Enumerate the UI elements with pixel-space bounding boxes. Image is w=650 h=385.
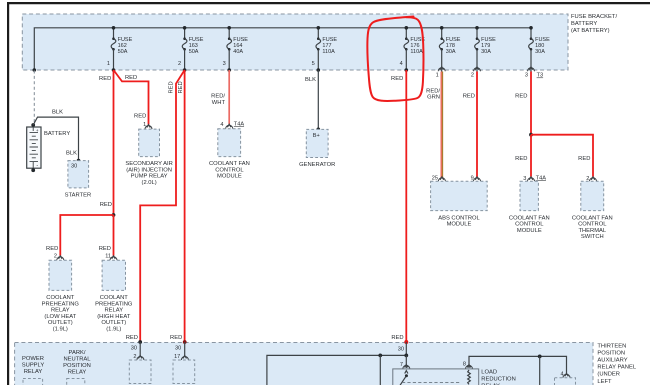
svg-text:RED: RED [170, 335, 182, 341]
coolant preheating relay low [42, 260, 80, 332]
svg-text:FUSE BRACKET/: FUSE BRACKET/ [571, 14, 617, 20]
svg-text:30: 30 [175, 346, 181, 352]
svg-text:RED: RED [100, 202, 112, 208]
svg-text:COOLANT: COOLANT [46, 295, 74, 301]
svg-text:3: 3 [525, 73, 528, 79]
svg-text:RED: RED [391, 76, 403, 82]
svg-text:SUPPLY: SUPPLY [22, 363, 45, 369]
panel caption [597, 343, 636, 385]
wire RED fuse180 T3 to junction [515, 72, 533, 137]
svg-text:2: 2 [178, 61, 181, 67]
svg-text:(AT BATTERY): (AT BATTERY) [571, 28, 610, 34]
wire battery feed (dashed) [33, 71, 34, 126]
svg-text:AUXILIARY: AUXILIARY [597, 358, 627, 364]
coolant preheating relay high [95, 260, 133, 332]
svg-text:POSITION: POSITION [63, 363, 91, 369]
svg-text:SWITCH: SWITCH [581, 234, 604, 240]
svg-text:BATTERY: BATTERY [571, 21, 597, 27]
svg-text:RELAY PANEL: RELAY PANEL [597, 365, 636, 371]
svg-text:(1.9L): (1.9L) [53, 327, 68, 333]
fuse F176 110A [400, 26, 426, 72]
fuse F179 30A [471, 26, 496, 79]
svg-text:3: 3 [223, 61, 226, 67]
power supply relay box [23, 379, 43, 385]
relay box pins 30/17 [173, 360, 195, 384]
svg-text:RED/: RED/ [426, 88, 440, 94]
svg-text:PREHEATING: PREHEATING [42, 301, 80, 307]
svg-text:RED: RED [578, 156, 590, 162]
fuse bracket caption [571, 14, 617, 34]
svg-text:50A: 50A [118, 49, 128, 55]
svg-text:RED: RED [515, 94, 527, 100]
svg-text:30A: 30A [535, 49, 545, 55]
svg-text:BATTERY: BATTERY [44, 131, 70, 137]
svg-text:COOLANT FAN: COOLANT FAN [209, 161, 250, 167]
svg-text:30: 30 [398, 347, 404, 353]
svg-text:BLK: BLK [66, 150, 77, 156]
svg-text:7: 7 [400, 362, 403, 368]
svg-text:(HIGH HEAT: (HIGH HEAT [97, 314, 131, 320]
svg-text:COOLANT FAN: COOLANT FAN [509, 215, 550, 221]
svg-text:(LOW HEAT: (LOW HEAT [44, 314, 76, 320]
svg-text:(2.0L): (2.0L) [142, 180, 157, 186]
svg-text:110A: 110A [410, 49, 423, 55]
svg-text:50A: 50A [189, 49, 199, 55]
svg-text:ABS CONTROL: ABS CONTROL [438, 215, 480, 221]
wire RED fuse179 to ABS pin9 [463, 72, 481, 182]
svg-text:POWER: POWER [22, 356, 44, 362]
svg-text:CONTROL: CONTROL [515, 222, 544, 228]
svg-text:2: 2 [54, 253, 57, 259]
svg-text:WHT: WHT [212, 100, 226, 106]
svg-text:OUTLET): OUTLET) [48, 320, 73, 326]
svg-text:COOLANT FAN: COOLANT FAN [572, 215, 613, 221]
secondary air relay [125, 129, 172, 186]
wire RED fuse163 pin2 to park/neutral relay [170, 70, 188, 360]
thirteen position relay panel box [15, 343, 593, 385]
park/neutral position relay caption [63, 350, 91, 376]
node bus-battery drop [33, 68, 37, 72]
svg-text:5: 5 [312, 61, 315, 67]
svg-text:1: 1 [436, 73, 439, 79]
svg-text:110A: 110A [322, 49, 335, 55]
svg-text:MODULE: MODULE [217, 174, 242, 180]
svg-text:RED: RED [99, 76, 111, 82]
svg-text:RED: RED [99, 246, 111, 252]
svg-text:30A: 30A [481, 49, 491, 55]
wire to load reduction relay pin7 [400, 355, 410, 369]
svg-text:17: 17 [174, 354, 180, 360]
svg-text:BLK: BLK [305, 77, 316, 83]
svg-text:RED: RED [125, 75, 137, 81]
svg-text:PREHEATING: PREHEATING [95, 301, 133, 307]
red annotation circle around fuse F176 [367, 17, 423, 102]
fuse F180 30A [525, 26, 550, 79]
svg-text:T3: T3 [537, 73, 544, 79]
wire RED branch to low heat relay [46, 215, 113, 260]
svg-text:RELAY: RELAY [105, 308, 124, 314]
svg-text:RELAY: RELAY [51, 308, 70, 314]
fuse F177 110A [312, 26, 338, 72]
svg-text:STARTER: STARTER [65, 192, 92, 198]
svg-text:RED: RED [134, 113, 146, 119]
svg-text:RELAY: RELAY [68, 370, 87, 376]
wire load reduction relay pin8 to aux connector 4 [463, 355, 570, 385]
coolant fan control thermal switch [572, 181, 613, 240]
coolant fan control module 1 [209, 129, 250, 180]
starter [65, 159, 92, 199]
svg-text:RED: RED [46, 246, 58, 252]
svg-text:RED/: RED/ [211, 94, 225, 100]
svg-text:OUTLET): OUTLET) [101, 320, 126, 326]
svg-text:RED: RED [515, 156, 527, 162]
wire BLK battery to starter [33, 110, 78, 161]
svg-text:2: 2 [471, 73, 474, 79]
svg-text:(UNDER: (UNDER [597, 372, 620, 378]
coolant fan control module 2 [509, 181, 550, 234]
svg-text:THIRTEEN: THIRTEEN [597, 343, 626, 349]
svg-text:40A: 40A [233, 49, 243, 55]
park/neutral position relay box [67, 379, 85, 385]
svg-text:30: 30 [71, 164, 77, 170]
svg-text:SECONDARY AIR: SECONDARY AIR [125, 161, 172, 167]
svg-text:30A: 30A [446, 49, 456, 55]
svg-text:T4A: T4A [536, 175, 547, 181]
svg-text:MODULE: MODULE [517, 228, 542, 234]
svg-text:GRN: GRN [427, 95, 440, 101]
bus wire [34, 28, 531, 70]
svg-text:2: 2 [133, 354, 136, 360]
wire RED/WHT fuse164 pin3 to coolant fan control module [211, 70, 244, 129]
svg-text:4: 4 [400, 61, 403, 67]
svg-text:1: 1 [107, 61, 110, 67]
fuse F162 50A [107, 26, 133, 72]
svg-text:25: 25 [432, 176, 438, 182]
svg-text:LEFT: LEFT [597, 379, 612, 385]
svg-text:NEUTRAL: NEUTRAL [63, 357, 91, 363]
svg-text:GENERATOR: GENERATOR [299, 162, 335, 168]
wire RED junction to coolant fan module 2 [515, 135, 546, 182]
wire RED fuse162 pin1 to preheating relays [99, 70, 117, 260]
svg-text:-: - [36, 163, 38, 169]
svg-text:+: + [36, 128, 39, 133]
wire RED fuse176 pin4 to relay panel [391, 70, 408, 355]
svg-text:RED: RED [463, 94, 475, 100]
wire RED/GRN fuse178 to ABS pin25 [426, 72, 445, 182]
svg-text:THERMAL: THERMAL [578, 228, 606, 234]
wire RED fuse163 branch to power supply relay [126, 70, 185, 360]
svg-text:COOLANT: COOLANT [100, 295, 128, 301]
fuse F163 50A [178, 26, 204, 72]
svg-text:30: 30 [131, 346, 137, 352]
svg-text:(1.9L): (1.9L) [106, 327, 121, 333]
svg-text:RELAY: RELAY [24, 369, 43, 375]
svg-text:PUMP RELAY: PUMP RELAY [131, 174, 168, 180]
svg-text:RED: RED [178, 81, 184, 93]
relay box pins 30/2 [129, 360, 151, 384]
wire RED junction to thermal switch [531, 135, 597, 182]
svg-text:POSITION: POSITION [597, 350, 625, 356]
svg-text:REDUCTION: REDUCTION [481, 376, 515, 382]
fuse F164 40A [223, 26, 249, 72]
svg-text:MODULE: MODULE [447, 222, 472, 228]
generator [299, 127, 335, 168]
svg-text:RED: RED [168, 81, 174, 93]
aux connector box 4 [555, 378, 576, 385]
svg-text:BLK: BLK [52, 110, 63, 116]
svg-text:CONTROL: CONTROL [578, 222, 607, 228]
panel internal wire left [267, 354, 408, 385]
battery BATT [27, 123, 71, 172]
power supply relay caption [22, 356, 45, 375]
svg-text:(AIR) INJECTION: (AIR) INJECTION [126, 167, 172, 173]
svg-text:B+: B+ [313, 133, 320, 139]
ABS control module [431, 181, 488, 227]
svg-text:4: 4 [220, 122, 223, 128]
fuse bracket/battery box [22, 14, 568, 70]
svg-text:RED: RED [126, 335, 138, 341]
svg-text:LOAD: LOAD [481, 369, 497, 375]
svg-text:PARK/: PARK/ [69, 350, 86, 356]
wire RED branch to secondary air relay [114, 70, 153, 129]
load reduction relay [393, 369, 516, 385]
fuse F178 30A [436, 26, 461, 79]
svg-text:CONTROL: CONTROL [215, 167, 244, 173]
wire BLK fuse177 pin5 to generator [305, 70, 318, 129]
svg-text:RED: RED [391, 335, 403, 341]
svg-text:T4A: T4A [234, 121, 245, 127]
